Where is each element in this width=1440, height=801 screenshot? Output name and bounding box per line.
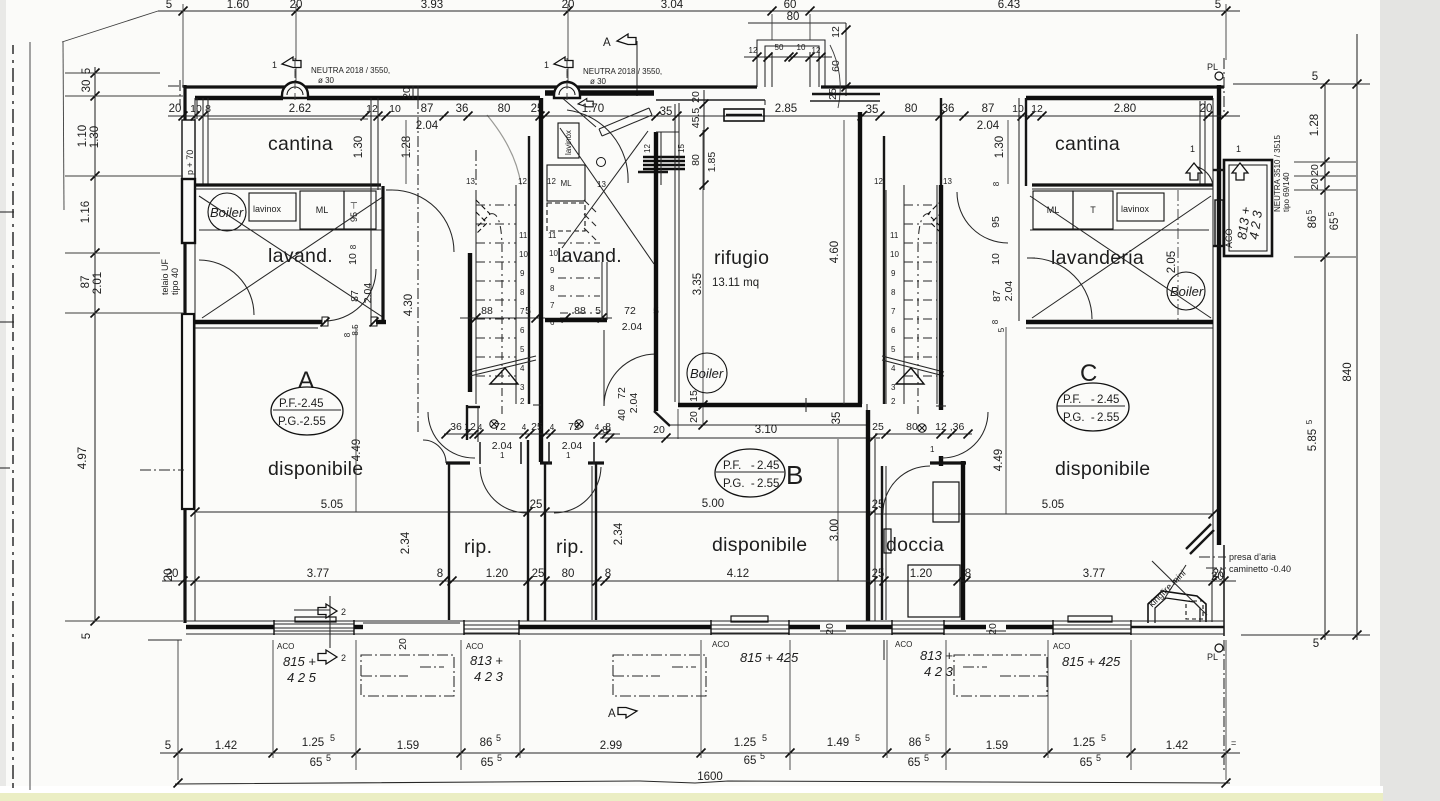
svg-text:36: 36 <box>450 421 462 433</box>
rifugio dims <box>703 90 705 190</box>
svg-text:8: 8 <box>991 319 1000 324</box>
svg-text:9: 9 <box>520 269 525 278</box>
svg-text:1.42: 1.42 <box>1166 740 1188 752</box>
door row right <box>872 421 972 454</box>
svg-text:815 + 425: 815 + 425 <box>1062 654 1121 669</box>
svg-text:p + 70: p + 70 <box>185 150 195 175</box>
svg-text:NEUTRA 2018 / 3550,: NEUTRA 2018 / 3550, <box>311 66 390 75</box>
svg-text:1.16: 1.16 <box>80 201 92 223</box>
svg-text:lavinox: lavinox <box>1121 204 1150 214</box>
svg-text:lavanderia: lavanderia <box>1051 247 1144 269</box>
svg-text:2.34: 2.34 <box>613 522 625 545</box>
svg-text:1.49: 1.49 <box>827 737 849 749</box>
svg-text:815 +: 815 + <box>283 654 316 669</box>
svg-text:72: 72 <box>494 421 506 433</box>
svg-text:88: 88 <box>574 305 586 317</box>
svg-text:13: 13 <box>597 180 606 189</box>
rifugio recess walls <box>654 132 658 411</box>
svg-text:87: 87 <box>349 290 361 302</box>
svg-text:45.5: 45.5 <box>690 108 702 129</box>
svg-text:ø 30: ø 30 <box>590 77 607 86</box>
svg-text:10: 10 <box>990 253 1002 265</box>
lavand A fixtures <box>208 193 246 231</box>
section arrow A top <box>603 34 637 96</box>
88 / 5 dim <box>460 317 545 319</box>
chimney arc left (over walls) <box>282 82 308 98</box>
svg-text:5.05: 5.05 <box>321 499 343 511</box>
svg-text:9: 9 <box>891 269 896 278</box>
top inner wall right unit <box>1026 96 1213 100</box>
svg-text:1.42: 1.42 <box>215 740 237 752</box>
svg-text:5.05: 5.05 <box>1042 499 1064 511</box>
svg-text:1.20: 1.20 <box>486 568 508 580</box>
svg-text:5: 5 <box>81 68 93 74</box>
svg-text:13: 13 <box>466 177 475 186</box>
svg-text:12: 12 <box>749 46 758 55</box>
svg-text:3.93: 3.93 <box>421 0 443 11</box>
svg-text:4.49: 4.49 <box>993 449 1005 471</box>
svg-text:2.34: 2.34 <box>400 531 412 554</box>
fireplace corner <box>1147 524 1291 623</box>
svg-text:4.49: 4.49 <box>351 439 363 461</box>
wall right of right stair <box>940 98 942 185</box>
svg-text:P.G. - 2.55: P.G. - 2.55 <box>1063 412 1119 424</box>
secondary 80 line top center <box>748 11 851 96</box>
thick wall between stair and mid lavand <box>539 98 543 462</box>
stringer diagonal + triangle <box>470 356 536 372</box>
svg-text:PL: PL <box>1207 652 1218 662</box>
svg-text:1: 1 <box>500 451 505 460</box>
window sill bumps <box>295 617 336 622</box>
svg-text:65: 65 <box>1080 757 1093 769</box>
svg-text:35: 35 <box>831 412 843 425</box>
svg-text:4: 4 <box>595 423 600 432</box>
svg-text:lavand.: lavand. <box>268 245 333 267</box>
svg-text:2.04: 2.04 <box>622 321 643 333</box>
svg-text:5: 5 <box>1101 733 1106 743</box>
svg-text:10: 10 <box>519 250 528 259</box>
svg-text:12: 12 <box>812 46 821 55</box>
svg-text:15: 15 <box>688 390 700 402</box>
svg-text:7: 7 <box>550 301 555 310</box>
svg-text:25: 25 <box>530 499 543 511</box>
svg-text:1.25: 1.25 <box>734 737 756 749</box>
svg-text:20: 20 <box>1211 571 1224 583</box>
lavanderia door arc <box>1031 258 1092 319</box>
svg-text:lavand.: lavand. <box>557 245 622 267</box>
svg-text:1: 1 <box>272 60 277 70</box>
svg-text:80: 80 <box>562 568 575 580</box>
svg-text:2.04: 2.04 <box>362 283 374 304</box>
section arrow A bottom <box>608 708 637 721</box>
svg-text:2.04: 2.04 <box>1003 281 1015 302</box>
svg-text:88: 88 <box>481 305 493 317</box>
svg-text:2.80: 2.80 <box>1114 103 1136 115</box>
svg-text:8: 8 <box>349 244 358 249</box>
svg-text:3.35: 3.35 <box>692 273 704 295</box>
svg-text:P.F. - 2.45: P.F. - 2.45 <box>1063 394 1119 406</box>
svg-text:1.20: 1.20 <box>910 568 932 580</box>
svg-text:2: 2 <box>520 397 525 406</box>
svg-text:36: 36 <box>942 103 955 115</box>
svg-text:PL: PL <box>1207 62 1218 72</box>
entry diagonal window <box>560 96 652 183</box>
yellow strip bottom <box>0 793 1383 801</box>
svg-text:1.30: 1.30 <box>89 126 101 148</box>
svg-text:2.04: 2.04 <box>628 393 640 414</box>
svg-text:5: 5 <box>496 733 501 743</box>
svg-text:2.04: 2.04 <box>416 120 439 132</box>
svg-text:doccia: doccia <box>886 534 944 556</box>
svg-text:11: 11 <box>519 231 528 240</box>
svg-text:1.10: 1.10 <box>77 125 89 147</box>
lavinox vertical mid <box>558 123 579 158</box>
svg-text:ACO: ACO <box>466 642 483 651</box>
svg-text:P.F. - 2.45: P.F. - 2.45 <box>723 460 779 472</box>
rifugio window <box>724 109 764 121</box>
svg-text:36: 36 <box>456 103 469 115</box>
PL markers right <box>1207 58 1224 772</box>
arrows "2" left <box>294 596 346 664</box>
svg-text:12: 12 <box>830 26 842 38</box>
svg-text:1: 1 <box>1190 144 1195 154</box>
svg-text:65: 65 <box>908 757 921 769</box>
B right wall <box>866 410 870 621</box>
svg-text:813 +: 813 + <box>470 653 503 668</box>
up arrow chevron <box>476 200 490 228</box>
svg-text:tipo 69/140: tipo 69/140 <box>1282 172 1291 212</box>
svg-text:A: A <box>603 37 611 49</box>
svg-text:1.30: 1.30 <box>353 136 365 158</box>
svg-text:1.59: 1.59 <box>397 740 419 752</box>
svg-text:2.04: 2.04 <box>977 120 1000 132</box>
svg-text:10: 10 <box>549 249 558 258</box>
svg-text:5: 5 <box>1327 211 1336 216</box>
svg-text:20: 20 <box>690 91 702 103</box>
svg-text:3.04: 3.04 <box>661 0 684 11</box>
svg-text:ML: ML <box>316 205 329 215</box>
svg-text:6: 6 <box>520 326 525 335</box>
svg-text:ML: ML <box>560 179 572 188</box>
svg-text:6.43: 6.43 <box>998 0 1020 11</box>
svg-text:1.28: 1.28 <box>1309 114 1321 136</box>
svg-text:2: 2 <box>341 653 346 663</box>
svg-text:P.F.-2.45: P.F.-2.45 <box>279 398 324 410</box>
svg-text:lavinox: lavinox <box>564 130 573 155</box>
svg-text:ACO: ACO <box>277 642 294 651</box>
svg-text:1.30: 1.30 <box>994 136 1006 158</box>
svg-text:2.01: 2.01 <box>92 272 104 294</box>
left corridor arc into A zone <box>428 412 475 458</box>
svg-text:12: 12 <box>643 144 652 153</box>
svg-text:Boiler: Boiler <box>1170 284 1204 299</box>
svg-text:5: 5 <box>891 345 896 354</box>
svg-text:4.97: 4.97 <box>77 447 89 469</box>
svg-text:20: 20 <box>1309 164 1321 176</box>
svg-text:12: 12 <box>1031 103 1043 115</box>
vent grille <box>643 157 685 169</box>
svg-text:1.25: 1.25 <box>302 737 324 749</box>
svg-text:20: 20 <box>688 411 700 423</box>
svg-text:1.25: 1.25 <box>1073 737 1095 749</box>
svg-text:35: 35 <box>660 106 673 118</box>
3.10 dim line <box>600 437 880 439</box>
mid lavand bottom wall <box>545 318 607 322</box>
svg-text:2.62: 2.62 <box>289 103 311 115</box>
svg-text:6: 6 <box>891 326 896 335</box>
left low dashed line <box>140 469 184 471</box>
svg-text:3.00: 3.00 <box>829 519 841 541</box>
lavand A door arcs <box>199 260 254 315</box>
svg-text:5: 5 <box>166 0 172 11</box>
svg-text:87: 87 <box>991 290 1003 302</box>
svg-text:10: 10 <box>190 103 202 115</box>
wall right of lavand A <box>370 98 372 321</box>
svg-text:60: 60 <box>784 0 797 11</box>
svg-text:72: 72 <box>624 305 636 317</box>
svg-text:20: 20 <box>653 424 665 436</box>
small dashed marks around patios <box>420 666 987 668</box>
svg-text:A: A <box>298 367 314 394</box>
svg-text:ML: ML <box>1047 205 1060 215</box>
svg-text:10: 10 <box>1012 103 1024 115</box>
svg-text:2.04: 2.04 <box>562 440 583 452</box>
svg-text:disponibile: disponibile <box>268 458 363 480</box>
svg-text:ACO: ACO <box>712 640 729 649</box>
svg-text:8: 8 <box>437 568 443 580</box>
svg-text:12: 12 <box>518 177 527 186</box>
svg-text:40: 40 <box>616 409 628 421</box>
NEUTRA chimney left <box>272 57 390 102</box>
mid stair numbers + dashed treads <box>548 231 558 327</box>
svg-text:2: 2 <box>341 607 346 617</box>
svg-text:3: 3 <box>520 383 525 392</box>
svg-text:13.11 mq: 13.11 mq <box>712 277 759 289</box>
svg-text:10: 10 <box>890 250 899 259</box>
svg-text:8: 8 <box>891 288 896 297</box>
lavanderia fixtures <box>1033 191 1073 229</box>
stair side rails <box>475 190 477 404</box>
top main dimension line <box>158 0 1240 16</box>
svg-text:ACO: ACO <box>1053 642 1070 651</box>
treads <box>476 205 516 376</box>
svg-text:80: 80 <box>906 421 918 433</box>
svg-text:5: 5 <box>925 733 930 743</box>
svg-text:rifugio: rifugio <box>714 247 769 269</box>
svg-text:5: 5 <box>1096 753 1101 763</box>
svg-text:5: 5 <box>520 345 525 354</box>
svg-text:5: 5 <box>1305 209 1314 214</box>
svg-text:5: 5 <box>525 305 531 317</box>
porch verticals to rifugio <box>764 100 766 105</box>
svg-text:7: 7 <box>891 307 896 316</box>
svg-text:5: 5 <box>165 740 171 752</box>
doccia room <box>881 466 883 620</box>
svg-text:65: 65 <box>310 757 323 769</box>
svg-text:80: 80 <box>690 154 702 166</box>
1600 line <box>175 781 1230 784</box>
svg-text:A: A <box>608 708 616 720</box>
svg-text:12: 12 <box>547 177 556 186</box>
svg-text:20: 20 <box>1309 178 1321 190</box>
svg-text:5: 5 <box>924 753 929 763</box>
svg-text:rip.: rip. <box>464 536 492 558</box>
svg-text:8: 8 <box>605 421 611 433</box>
svg-text:12: 12 <box>366 103 378 115</box>
svg-text:=: = <box>1231 738 1236 748</box>
B ellipse <box>715 449 785 497</box>
svg-text:35: 35 <box>866 104 879 116</box>
svg-text:10: 10 <box>797 43 806 52</box>
unit A lower wall y=322 <box>195 320 322 324</box>
svg-text:ACO: ACO <box>895 640 912 649</box>
grey screen strip right <box>1380 0 1440 801</box>
svg-text:caminetto -0.40: caminetto -0.40 <box>1229 564 1291 574</box>
svg-text:60: 60 <box>830 60 842 72</box>
grey sliver left <box>0 0 6 801</box>
door from hall into corridor <box>392 190 454 252</box>
svg-text:4 2 5: 4 2 5 <box>287 670 317 685</box>
svg-text:cantina: cantina <box>1055 133 1120 155</box>
svg-text:25: 25 <box>531 421 543 433</box>
svg-text:15: 15 <box>677 144 686 153</box>
svg-text:11: 11 <box>548 231 557 240</box>
top inner wall left unit <box>195 96 283 100</box>
top inner wall mid unit <box>545 90 555 96</box>
svg-text:20: 20 <box>163 569 175 582</box>
svg-text:2: 2 <box>891 397 896 406</box>
svg-text:4 2 3: 4 2 3 <box>474 669 504 684</box>
svg-text:4: 4 <box>522 423 527 432</box>
svg-text:NEUTRA 3510 / 3515: NEUTRA 3510 / 3515 <box>1273 135 1282 212</box>
svg-text:T: T <box>1090 205 1096 215</box>
svg-text:25: 25 <box>872 421 884 433</box>
svg-text:8: 8 <box>550 284 555 293</box>
svg-text:5: 5 <box>595 305 601 317</box>
svg-text:8: 8 <box>992 181 1001 186</box>
svg-text:5.85: 5.85 <box>1307 429 1319 451</box>
wall left of lavanderia <box>1025 98 1027 186</box>
svg-text:P.G.-2.55: P.G.-2.55 <box>278 416 326 428</box>
svg-text:20: 20 <box>397 638 409 650</box>
svg-text:1.85: 1.85 <box>706 152 718 173</box>
svg-text:Boiler: Boiler <box>210 205 244 220</box>
page torn edge left <box>12 45 14 788</box>
svg-text:20: 20 <box>169 103 182 115</box>
lavanderia cross <box>1030 196 1211 318</box>
svg-text:3.77: 3.77 <box>1083 568 1105 580</box>
corner dash-dot <box>168 80 183 106</box>
rifugio walls <box>656 99 765 101</box>
svg-text:4: 4 <box>520 364 525 373</box>
top outer wall <box>184 85 757 88</box>
svg-text:80: 80 <box>498 103 511 115</box>
svg-text:5: 5 <box>1215 0 1221 11</box>
svg-text:5: 5 <box>1312 71 1318 83</box>
svg-text:B: B <box>786 460 803 490</box>
svg-text:1: 1 <box>544 60 549 70</box>
svg-text:5: 5 <box>326 753 331 763</box>
svg-text:65: 65 <box>744 755 757 767</box>
svg-text:20: 20 <box>987 623 999 635</box>
svg-text:1: 1 <box>930 445 935 454</box>
svg-text:3.77: 3.77 <box>307 568 329 580</box>
svg-text:80: 80 <box>787 11 800 23</box>
svg-text:8: 8 <box>965 568 971 580</box>
svg-text:8: 8 <box>343 332 352 337</box>
ML box mid <box>547 165 585 201</box>
windows (triple line) <box>274 624 1131 633</box>
patio dashed outlines <box>361 655 1047 696</box>
svg-text:50: 50 <box>775 43 784 52</box>
main bottom wall segments (piers) <box>186 625 274 629</box>
svg-text:8: 8 <box>520 288 525 297</box>
NEUTRA chimney mid <box>544 57 662 102</box>
svg-text:5: 5 <box>1313 638 1319 650</box>
svg-text:813 +: 813 + <box>920 648 953 663</box>
svg-text:86: 86 <box>480 737 493 749</box>
svg-text:87: 87 <box>80 276 92 289</box>
svg-text:2.85: 2.85 <box>775 103 797 115</box>
door row small dims left <box>442 420 621 460</box>
svg-text:87: 87 <box>982 103 995 115</box>
svg-text:ø 30: ø 30 <box>318 76 335 85</box>
svg-text:NEUTRA 2018 / 3550,: NEUTRA 2018 / 3550, <box>583 67 662 76</box>
unit C lower wall <box>1026 320 1213 324</box>
svg-text:8: 8 <box>605 568 611 580</box>
svg-text:5: 5 <box>330 733 335 743</box>
top/bottom faces <box>186 620 1224 622</box>
svg-text:13: 13 <box>943 177 952 186</box>
svg-text:5: 5 <box>760 751 765 761</box>
svg-text:3.10: 3.10 <box>755 424 777 436</box>
svg-text:5: 5 <box>762 733 767 743</box>
walls of rip rooms <box>448 463 450 620</box>
svg-text:Boiler: Boiler <box>690 366 724 381</box>
svg-text:4 2 3: 4 2 3 <box>924 664 954 679</box>
svg-text:5: 5 <box>855 733 860 743</box>
corridor door arc C <box>957 192 1008 243</box>
svg-text:65: 65 <box>1329 218 1341 231</box>
svg-text:4.30: 4.30 <box>403 294 415 316</box>
chimney arc mid (over walls) <box>554 82 580 98</box>
5.05 dim line <box>195 511 875 513</box>
svg-text:lavinox: lavinox <box>253 204 282 214</box>
external NEUTRA box right <box>1186 135 1291 256</box>
left outer wall <box>183 85 186 623</box>
cantina C bottom wall <box>1032 183 1213 186</box>
svg-text:disponibile: disponibile <box>1055 458 1150 480</box>
svg-text:P.G. - 2.55: P.G. - 2.55 <box>723 478 779 490</box>
svg-text:86: 86 <box>909 737 922 749</box>
svg-text:65: 65 <box>481 757 494 769</box>
svg-text:5: 5 <box>497 753 502 763</box>
svg-text:disponibile: disponibile <box>712 534 807 556</box>
svg-text:presa d’aria: presa d’aria <box>1229 552 1276 562</box>
svg-text:95: 95 <box>990 216 1002 228</box>
svg-text:87: 87 <box>421 103 434 115</box>
svg-text:4.12: 4.12 <box>727 568 749 580</box>
right outer wall <box>1217 85 1221 545</box>
svg-text:72: 72 <box>616 387 628 399</box>
svg-text:86: 86 <box>1307 216 1319 229</box>
svg-text:20: 20 <box>401 87 413 99</box>
svg-text:12: 12 <box>874 177 883 186</box>
svg-text:tipo 40: tipo 40 <box>170 268 180 295</box>
svg-text:2.05: 2.05 <box>1166 251 1178 273</box>
step numbers <box>519 231 528 406</box>
cantina A bottom wall <box>195 183 381 186</box>
